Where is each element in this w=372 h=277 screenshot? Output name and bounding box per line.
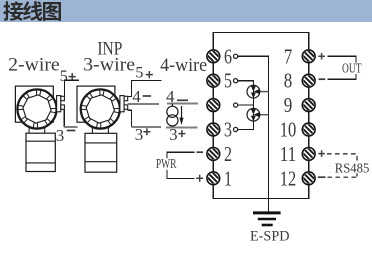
svg-text:7: 7 <box>284 44 293 68</box>
current source symbol (4-wire signal source) <box>167 104 178 128</box>
PWR supply box <box>167 152 195 178</box>
svg-text:RS485: RS485 <box>335 161 370 176</box>
terminal 2 (left rail) <box>204 145 222 163</box>
svg-text:12: 12 <box>280 166 297 190</box>
svg-text:3: 3 <box>169 125 178 144</box>
svg-text:11: 11 <box>280 142 297 166</box>
transmitter TX2 (3-wire) <box>77 86 128 172</box>
svg-text:10: 10 <box>280 118 297 142</box>
svg-text:3: 3 <box>56 126 65 145</box>
label + at terminal 1 <box>196 175 203 182</box>
svg-text:5: 5 <box>224 69 232 93</box>
transistor symbol Q2 (sensor type) <box>247 108 269 121</box>
arrow current direction <box>181 106 183 119</box>
label + at terminal 11 <box>318 150 325 157</box>
center earth wire <box>238 56 269 211</box>
earth ground symbol <box>253 213 281 225</box>
wire TX2 terminal 4 <box>128 103 159 105</box>
transmitter TX1 (2-wire) <box>15 86 64 171</box>
wire 4-wire terminal 3 <box>166 127 198 129</box>
wire TX1 terminal 3 <box>63 109 65 127</box>
terminal 4 (left rail) <box>204 96 222 114</box>
terminal 9 (right rail) <box>300 96 318 114</box>
svg-text:E-SPD: E-SPD <box>250 228 290 244</box>
svg-text:3: 3 <box>224 118 232 142</box>
pin node <box>234 79 238 83</box>
label - at terminal 12 and dashed wire <box>318 176 326 178</box>
wire pins 5-3 loop <box>238 81 254 130</box>
svg-text:2-wire: 2-wire <box>8 55 59 76</box>
pin node <box>234 54 238 58</box>
svg-text:5: 5 <box>60 68 68 85</box>
wire TX2 terminal 5 <box>128 81 162 97</box>
terminal 1 (left rail) <box>204 169 222 187</box>
svg-text:9: 9 <box>284 93 293 117</box>
wire 4-wire terminal 4 <box>167 103 198 105</box>
terminal 3 (left rail) <box>204 121 222 139</box>
pin node <box>234 127 238 131</box>
header bar <box>0 0 372 22</box>
terminal 6 (left rail) <box>204 47 222 65</box>
OUT analog output box <box>328 56 357 79</box>
svg-text:1: 1 <box>224 166 232 190</box>
RS485 communication box (dashed) <box>327 154 357 177</box>
wire pin 4 <box>238 104 254 106</box>
label + at terminal 7 <box>318 53 325 60</box>
terminal block bus frame <box>213 32 308 198</box>
svg-text:4: 4 <box>166 87 175 106</box>
terminal 12 (right rail) <box>300 169 318 187</box>
svg-text:OUT: OUT <box>342 61 362 76</box>
svg-text:4-wire: 4-wire <box>160 55 207 76</box>
label - at terminal 2 <box>197 151 204 153</box>
svg-text:PWR: PWR <box>156 157 177 172</box>
terminal 11 (right rail) <box>300 145 318 163</box>
svg-text:3-wire: 3-wire <box>83 55 135 76</box>
wire TX2 terminal 3 <box>128 110 132 127</box>
terminal 10 (right rail) <box>300 121 318 139</box>
svg-text:2: 2 <box>224 142 232 166</box>
terminal 8 (right rail) <box>300 72 318 90</box>
title 接线图 (Wiring Diagram) <box>3 1 61 21</box>
transistor symbol Q1 (sensor type) <box>247 85 269 98</box>
svg-text:3: 3 <box>135 125 144 144</box>
label - at terminal 8 <box>319 78 326 80</box>
terminal 7 (right rail) <box>300 47 318 65</box>
wire TX1 terminal 5 <box>65 80 79 96</box>
pin node <box>234 103 238 107</box>
svg-text:8: 8 <box>284 69 293 93</box>
svg-text:6: 6 <box>224 44 232 68</box>
terminal 5 (left rail) <box>204 72 222 90</box>
svg-text:5: 5 <box>135 65 143 82</box>
svg-text:4: 4 <box>132 87 141 106</box>
